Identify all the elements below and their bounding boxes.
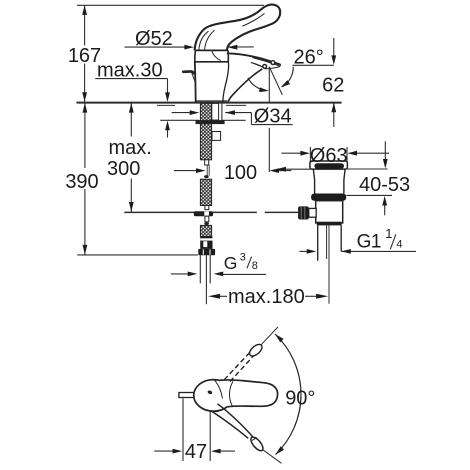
svg-text:100: 100	[224, 162, 257, 184]
svg-text:max.: max.	[109, 137, 152, 159]
svg-text:47: 47	[185, 441, 207, 463]
svg-text:62: 62	[322, 75, 344, 97]
svg-text:G: G	[224, 253, 238, 273]
svg-text:4: 4	[396, 238, 402, 250]
svg-text:90°: 90°	[285, 388, 315, 410]
svg-text:Ø63: Ø63	[310, 145, 348, 167]
svg-text:G1: G1	[357, 231, 381, 252]
svg-text:Ø34: Ø34	[254, 105, 292, 127]
svg-text:max.30: max.30	[97, 60, 163, 82]
svg-text:8: 8	[252, 260, 258, 272]
svg-text:Ø52: Ø52	[135, 28, 173, 50]
svg-text:26°: 26°	[294, 46, 324, 68]
svg-text:40-53: 40-53	[359, 174, 410, 196]
svg-text:1: 1	[385, 226, 392, 241]
svg-text:max.180: max.180	[228, 286, 305, 308]
svg-text:3: 3	[240, 252, 246, 264]
svg-text:300: 300	[107, 158, 140, 180]
svg-text:390: 390	[65, 171, 98, 193]
